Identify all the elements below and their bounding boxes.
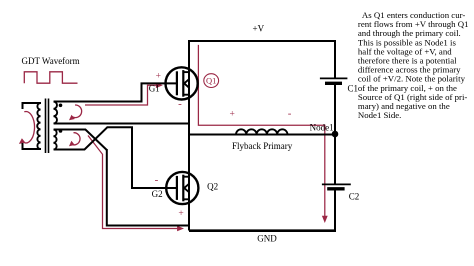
wire Q1 drain-source vertical axis (from +V rail through Q1, Q2 to GND) (188, 40, 190, 231)
wire Flyback primary line from Q1 source to Node1 (189, 134, 335, 136)
wire right rail upper segment from +V to C1 (334, 40, 336, 78)
transformer lower secondary winding (54, 130, 57, 150)
svg-text:G2: G2 (152, 189, 163, 199)
arrowhead of return path pointing right at Q2 source (177, 226, 184, 232)
wire GDT primary top lead with terminal stub (23, 103, 42, 109)
capacitor C1 (320, 78, 348, 83)
wire GND left segment from lower secondary to Q2 source (107, 149, 189, 226)
arrowhead of G1 drive path pointing right (156, 83, 163, 89)
curved arrow current direction in lower secondary (71, 133, 80, 145)
transformer GDT primary winding (37, 103, 40, 149)
wire from C2 to GND rail (334, 191, 336, 231)
wire upper secondary top lead to G1 (54, 83, 177, 101)
wire GDT primary bottom lead with terminal stub (23, 143, 42, 149)
wire +V top rail (188, 40, 335, 42)
wire from Node1 down to C2 (334, 134, 336, 184)
wire step between GND levels at Q2 source (188, 226, 190, 231)
transistor Q2 N-channel MOSFET (166, 172, 198, 204)
svg-text:Node1: Node1 (310, 122, 334, 132)
svg-text:GND: GND (257, 234, 277, 244)
svg-text:C2: C2 (349, 191, 360, 201)
transformer upper secondary winding (54, 102, 58, 124)
svg-text:Node1 Side.: Node1 Side. (358, 110, 402, 120)
GDT square waveform (24, 72, 77, 83)
svg-text:Q2: Q2 (207, 181, 218, 191)
transistor Q1 N-channel MOSFET (166, 67, 198, 99)
svg-text:GDT Waveform: GDT Waveform (22, 56, 80, 66)
arrowhead of Q1 current path pointing down at GND (322, 216, 328, 223)
wire from C1 down to Node1 (334, 85, 336, 135)
curved arrow current direction in GDT primary (21, 112, 34, 143)
svg-text:-: - (288, 107, 292, 119)
label description paragraph (358, 10, 469, 120)
svg-text:Q1: Q1 (206, 76, 216, 86)
svg-text:Flyback Primary: Flyback Primary (232, 141, 293, 151)
curved arrow current direction in upper secondary (72, 105, 81, 118)
wire lower secondary top lead diagonal down to GND left segment (54, 130, 107, 151)
svg-text:-: - (155, 174, 159, 186)
node phasing dot lower secondary (59, 129, 63, 133)
wire upper secondary bottom lead to Q1 source (54, 123, 188, 125)
wire GND bottom rail (189, 229, 336, 232)
wire red gate drive path into G1 (annotation) (85, 85, 158, 105)
transformer core (two bars) (46, 99, 49, 154)
svg-text:+: + (230, 110, 235, 120)
wire red current path from +V through Q1 to Node1 and down to GND (annotation) (198, 45, 324, 218)
svg-text:+: + (178, 209, 183, 219)
label Q1 circled reference (204, 74, 219, 88)
svg-text:+V: +V (253, 23, 265, 33)
wire red return path from lower secondary to Q2 source (annotation) (88, 136, 179, 229)
inductor Flyback Primary winding (5 arcs) (236, 129, 288, 134)
svg-text:+: + (156, 72, 161, 82)
svg-text:-: - (178, 98, 182, 110)
svg-text:G1: G1 (149, 84, 160, 94)
svg-text:C1: C1 (348, 83, 359, 93)
wire lower secondary bottom lead crossing up then to G2 (54, 127, 177, 188)
node phasing dot upper secondary (59, 104, 63, 108)
node Node1 junction dot (332, 131, 339, 138)
capacitor C2 (322, 184, 351, 188)
